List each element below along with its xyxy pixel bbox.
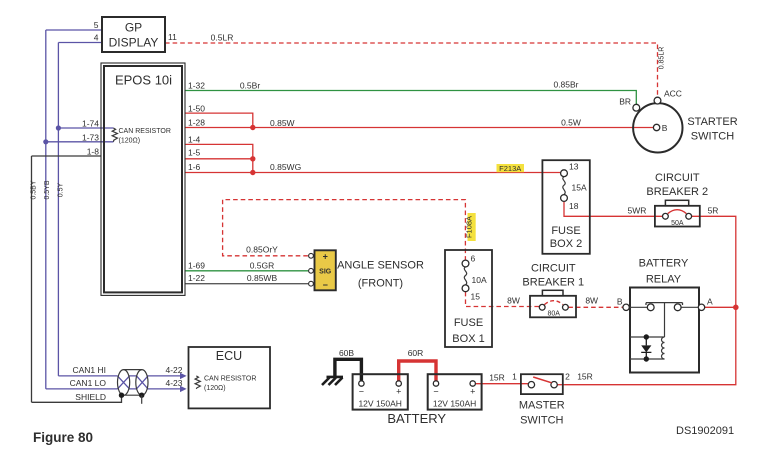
svg-text:0.5Br: 0.5Br xyxy=(240,81,260,91)
svg-text:−: − xyxy=(359,387,364,397)
terminal right circuit breaker 2 xyxy=(686,213,692,219)
net label F108A highlighted rotated xyxy=(468,213,476,241)
wire CAN1 LO crossover in twisted pair to ECU 4-23 xyxy=(118,376,184,389)
junction dot 1-5 xyxy=(250,156,255,161)
svg-text:1-50: 1-50 xyxy=(188,104,205,114)
wire EPOS 1-69 green 0.5GR to angle sensor SIG xyxy=(185,270,308,272)
svg-text:BREAKER 2: BREAKER 2 xyxy=(646,186,708,198)
svg-text:1-32: 1-32 xyxy=(188,81,205,91)
svg-text:BR: BR xyxy=(619,97,631,107)
terminal battery 1 plus xyxy=(396,381,401,386)
svg-text:SWITCH: SWITCH xyxy=(691,131,734,143)
svg-text:(120Ω): (120Ω) xyxy=(119,138,141,145)
svg-text:1-5: 1-5 xyxy=(188,148,201,158)
svg-text:0.85Br: 0.85Br xyxy=(553,80,578,90)
svg-text:8W: 8W xyxy=(507,296,520,306)
CIRCUIT BREAKER 1 box xyxy=(530,296,576,318)
relay contact circle left xyxy=(647,304,654,311)
wire CAN1 LO vertical bus 0.5YB xyxy=(45,30,47,389)
svg-text:80A: 80A xyxy=(547,311,560,318)
fuse 10A element fuse box 1 xyxy=(464,267,466,285)
diode cathode bar xyxy=(641,337,651,359)
svg-text:CAN1 LO: CAN1 LO xyxy=(70,378,107,388)
wire battery 2 plus 15R to master switch pin 1 xyxy=(476,383,529,385)
svg-text:1: 1 xyxy=(512,372,517,382)
svg-text:0.5LR: 0.5LR xyxy=(211,33,234,43)
wire CAN1 LO into twisted pair xyxy=(46,388,118,390)
svg-text:GP: GP xyxy=(125,21,142,35)
junction dot 1-74 xyxy=(56,125,61,130)
terminal battery 2 minus xyxy=(433,381,438,386)
wire SHIELD horizontal to twisted pair drain xyxy=(32,395,122,402)
svg-text:0.5Y: 0.5Y xyxy=(58,182,65,197)
wire CAN1 HI crossover in twisted pair to ECU 4-22 xyxy=(118,376,184,389)
junction dot diode bottom xyxy=(644,356,649,361)
svg-text:SWITCH: SWITCH xyxy=(520,415,563,427)
svg-text:+: + xyxy=(470,387,475,397)
relay bar to coil vertical xyxy=(664,303,666,337)
breaker arc 80A dashed xyxy=(544,301,563,305)
twisted pair drain dot left xyxy=(119,393,124,398)
twisted pair sleeve right ellipse xyxy=(136,370,148,396)
svg-text:1-22: 1-22 xyxy=(188,273,205,283)
inductor relay coil xyxy=(662,337,665,359)
junction dot diode top xyxy=(644,334,649,339)
wire EPOS 1-4 xyxy=(185,144,253,158)
svg-text:BATTERY: BATTERY xyxy=(387,411,446,426)
relay coil top rail xyxy=(630,336,665,338)
resistor CAN RESISTOR 120ohm ECU xyxy=(195,376,200,389)
svg-text:A: A xyxy=(707,297,713,307)
svg-text:STARTER: STARTER xyxy=(687,116,737,128)
relay contact bar xyxy=(646,303,683,305)
net label F213A highlighted xyxy=(497,164,525,172)
svg-text:BOX 1: BOX 1 xyxy=(452,333,484,345)
svg-text:SIG: SIG xyxy=(319,269,332,276)
twisted pair sleeve top and bottom lines xyxy=(124,370,142,396)
resistor CAN RESISTOR 120ohm EPOS xyxy=(112,128,117,142)
MASTER SWITCH box xyxy=(521,374,563,394)
svg-text:ACC: ACC xyxy=(664,89,682,99)
svg-text:60B: 60B xyxy=(339,348,354,358)
svg-text:11: 11 xyxy=(168,32,177,42)
svg-text:0.85WB: 0.85WB xyxy=(247,273,278,283)
ground chassis symbol xyxy=(322,377,343,385)
svg-text:1-73: 1-73 xyxy=(82,132,99,142)
relay coil bottom rail xyxy=(630,358,665,360)
battery 1 box xyxy=(353,374,408,409)
svg-text:CIRCUIT: CIRCUIT xyxy=(531,263,576,275)
svg-text:+: + xyxy=(396,387,401,397)
svg-text:6: 6 xyxy=(471,254,476,264)
svg-text:MASTER: MASTER xyxy=(519,400,565,412)
svg-text:15A: 15A xyxy=(572,183,587,193)
svg-text:DISPLAY: DISPLAY xyxy=(109,36,159,50)
svg-text:DS1902091: DS1902091 xyxy=(676,425,734,437)
svg-text:0.85W: 0.85W xyxy=(270,118,295,128)
svg-text:2: 2 xyxy=(565,372,570,382)
junction dot 1-28 xyxy=(250,125,255,130)
terminal 1 master switch xyxy=(528,382,534,388)
wire GP DISPLAY pin 5 to CAN1 LO bus xyxy=(46,29,102,31)
svg-text:ECU: ECU xyxy=(216,349,242,363)
arrow ECU pin 4-22 xyxy=(180,373,187,379)
wire battery relay A terminal xyxy=(705,306,736,308)
wire thick 60R battery 1 plus to battery 2 minus xyxy=(399,361,436,381)
svg-text:1-74: 1-74 xyxy=(82,119,99,129)
connector ANGLE SENSOR (FRONT) xyxy=(315,250,336,290)
svg-text:B: B xyxy=(617,297,623,307)
terminal B starter switch xyxy=(653,124,659,130)
starter switch body circle xyxy=(633,103,682,152)
wire dashed 8W circuit breaker 1 to battery relay B xyxy=(568,306,623,308)
wire GP DISPLAY pin 11 dashed 0.5LR to ACC xyxy=(165,43,658,97)
relay contact wire left xyxy=(630,306,647,308)
wire dashed 0.85OrY from fuse box 1 pin 6 to angle sensor plus xyxy=(223,200,466,260)
terminal 13 fuse box 2 xyxy=(561,170,568,177)
svg-text:−: − xyxy=(323,280,328,290)
twisted pair sleeve left ellipse xyxy=(118,370,130,396)
svg-text:18: 18 xyxy=(569,201,579,211)
terminal left circuit breaker 2 xyxy=(663,213,669,219)
ECU box xyxy=(189,347,271,408)
terminal 6 fuse box 1 xyxy=(462,260,469,267)
svg-text:4-23: 4-23 xyxy=(166,378,183,388)
wire thick 60B battery minus to ground xyxy=(335,359,362,380)
svg-text:13: 13 xyxy=(569,162,579,172)
wire EPOS pin 1-73 xyxy=(46,141,114,143)
breaker arc 50A xyxy=(668,210,687,214)
terminal A battery relay xyxy=(698,304,704,310)
svg-text:0.85OrY: 0.85OrY xyxy=(246,245,278,255)
wire master switch pin 2 internal stub xyxy=(557,384,565,386)
terminal circle angle sensor plus xyxy=(309,253,314,258)
CIRCUIT BREAKER 2 box xyxy=(655,206,700,227)
svg-text:CAN1 HI: CAN1 HI xyxy=(72,365,106,375)
svg-text:F213A: F213A xyxy=(499,164,521,173)
svg-text:0.85LR: 0.85LR xyxy=(659,47,666,70)
fuse 15A element fuse box 2 xyxy=(563,177,565,195)
svg-text:1-69: 1-69 xyxy=(188,261,205,271)
junction dot 1-6 xyxy=(250,170,255,175)
svg-text:8W: 8W xyxy=(585,296,598,306)
FUSE BOX 1 box xyxy=(445,250,492,347)
svg-text:0.85WG: 0.85WG xyxy=(270,162,301,172)
svg-text:F108A: F108A xyxy=(465,216,474,238)
terminal B battery relay xyxy=(623,304,629,310)
svg-text:Figure 80: Figure 80 xyxy=(33,430,93,445)
svg-text:15R: 15R xyxy=(577,372,593,382)
wire EPOS 1-6 0.85WG to fuse box 2 pin 13 xyxy=(185,172,561,174)
junction dot relay A line xyxy=(733,305,739,311)
terminal 18 fuse box 2 xyxy=(561,195,568,202)
wire EPOS pin 1-8 shield xyxy=(32,155,102,157)
svg-text:5: 5 xyxy=(94,20,99,30)
terminal BR starter switch xyxy=(633,104,640,111)
wire circuit breaker 2 5R down right side to master switch pin 2 xyxy=(565,216,736,384)
svg-text:1-28: 1-28 xyxy=(188,118,205,128)
terminal 15 fuse box 1 xyxy=(462,285,469,292)
wire GP DISPLAY pin 4 to CAN1 HI bus xyxy=(58,42,102,44)
svg-text:(FRONT): (FRONT) xyxy=(358,278,403,290)
wire CAN1 HI vertical bus 0.5Y xyxy=(57,43,59,376)
wire EPOS 1-22 0.85WB to angle sensor minus xyxy=(185,283,308,285)
svg-text:4-22: 4-22 xyxy=(166,365,183,375)
svg-text:1-6: 1-6 xyxy=(188,162,201,172)
svg-text:BATTERY: BATTERY xyxy=(639,258,689,270)
svg-text:CAN RESISTOR: CAN RESISTOR xyxy=(204,376,256,383)
svg-text:+: + xyxy=(323,252,328,262)
svg-text:0.5BY: 0.5BY xyxy=(31,180,38,199)
FUSE BOX 2 box xyxy=(542,160,589,254)
terminal circle angle sensor minus xyxy=(309,281,314,286)
terminal left circuit breaker 1 xyxy=(539,304,545,310)
wire CAN1 HI into twisted pair xyxy=(58,375,117,377)
terminal 2 master switch xyxy=(551,382,557,388)
diode relay flyback xyxy=(641,345,651,352)
svg-text:12V 150AH: 12V 150AH xyxy=(358,399,401,409)
twisted pair drain stub wire xyxy=(141,395,143,404)
svg-text:BREAKER 1: BREAKER 1 xyxy=(522,277,584,289)
wire EPOS pin 1-74 xyxy=(58,127,113,129)
wire dashed 8W fuse box 1 pin 15 to circuit breaker 1 xyxy=(466,292,540,307)
svg-text:12V 150AH: 12V 150AH xyxy=(433,399,476,409)
relay contact circle right xyxy=(674,304,681,311)
svg-text:RELAY: RELAY xyxy=(646,274,682,286)
svg-text:1-8: 1-8 xyxy=(87,146,100,156)
svg-text:CAN RESISTOR: CAN RESISTOR xyxy=(119,128,171,135)
svg-text:0.5W: 0.5W xyxy=(561,118,581,128)
junction dot 1-73 xyxy=(43,139,48,144)
svg-text:4: 4 xyxy=(94,33,99,43)
battery 2 box xyxy=(428,374,482,409)
arrow ECU pin 4-23 xyxy=(180,386,187,392)
terminal circle angle sensor SIG xyxy=(309,268,314,273)
terminal ACC starter switch xyxy=(654,97,661,104)
svg-text:10A: 10A xyxy=(472,275,487,285)
wire fuse box 2 pin 18 to circuit breaker 2 5WR xyxy=(564,202,663,217)
EPOS 10i outer box xyxy=(101,63,185,295)
svg-text:60R: 60R xyxy=(408,348,424,358)
wire EPOS 1-50 xyxy=(185,113,253,127)
svg-text:5WR: 5WR xyxy=(628,206,647,216)
terminal right circuit breaker 1 xyxy=(563,304,569,310)
svg-text:B: B xyxy=(662,123,668,133)
svg-text:FUSE: FUSE xyxy=(454,317,483,329)
relay contact wire right xyxy=(681,306,699,308)
svg-text:15: 15 xyxy=(471,292,481,302)
svg-text:0.5GR: 0.5GR xyxy=(250,261,275,271)
svg-text:(120Ω): (120Ω) xyxy=(204,385,226,392)
svg-text:EPOS 10i: EPOS 10i xyxy=(115,73,172,88)
BATTERY RELAY box xyxy=(630,288,699,373)
EPOS 10i inner box xyxy=(104,66,182,292)
svg-text:15R: 15R xyxy=(489,373,505,383)
wire EPOS 1-5 xyxy=(185,159,253,173)
svg-text:50A: 50A xyxy=(671,220,684,227)
wire SHIELD vertical bus 0.5BY xyxy=(31,156,33,402)
svg-text:−: − xyxy=(433,387,438,397)
svg-text:BOX 2: BOX 2 xyxy=(550,238,582,250)
svg-text:1-4: 1-4 xyxy=(188,135,201,145)
wire EPOS 1-32 green 0.5Br/0.85Br to BR xyxy=(185,91,636,105)
svg-text:FUSE: FUSE xyxy=(551,225,580,237)
GP DISPLAY box xyxy=(102,17,165,52)
svg-text:CIRCUIT: CIRCUIT xyxy=(655,172,700,184)
CIRCUIT BREAKER 2 top tab xyxy=(665,200,688,206)
svg-text:0.5YB: 0.5YB xyxy=(44,180,51,199)
wire EPOS 1-28 0.85W/0.5W to starter B xyxy=(185,127,653,129)
CIRCUIT BREAKER 1 top tab xyxy=(542,290,563,296)
svg-text:ANGLE SENSOR: ANGLE SENSOR xyxy=(337,260,424,272)
terminal battery 2 plus xyxy=(470,381,475,386)
terminal battery 1 minus xyxy=(359,381,364,386)
svg-text:SHIELD: SHIELD xyxy=(75,392,106,402)
switch blade master switch xyxy=(533,377,551,383)
svg-text:5R: 5R xyxy=(708,206,719,216)
twisted pair drain dot right with stub xyxy=(139,393,144,398)
